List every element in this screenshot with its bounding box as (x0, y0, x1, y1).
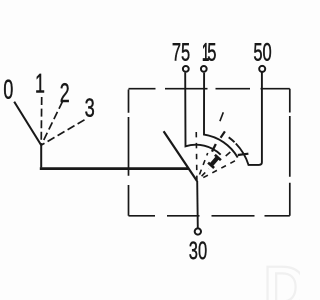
label position 1 (35, 69, 45, 99)
rotor radial 2 outer dash (226, 152, 231, 156)
svg-text:50: 50 (253, 39, 271, 67)
svg-text:5: 5 (207, 38, 216, 66)
terminal 75 circle (183, 66, 189, 72)
moving contact bar (bold I) (208, 155, 221, 168)
outer arc dashed segment (229, 137, 235, 142)
svg-text:0: 0 (3, 74, 13, 104)
switch housing dashed box: bottom edge (129, 215, 290, 217)
thick wire lever to switch (40, 167, 189, 170)
lever position 3 line (dashed) (41, 120, 84, 145)
rotor radial 1 outer dash (220, 112, 223, 121)
contact tick B between arcs (221, 131, 225, 137)
terminal label 30 (189, 237, 207, 265)
lever position 0 line (solid) (14, 102, 41, 146)
switch housing dashed box: top edge (129, 89, 290, 216)
svg-text:30: 30 (189, 237, 207, 265)
contact tick A on inner arc (212, 144, 216, 152)
lever position 1 line (dashed) (40, 97, 43, 145)
terminal 15 circle (201, 66, 207, 72)
terminal 15 lead + middle contact arc (204, 73, 238, 158)
label position 0 (3, 74, 13, 104)
switch housing dashed box: left edge (128, 90, 130, 216)
label position 3 (85, 93, 95, 123)
rotor position radial 0 (dashed vertical) (195, 128, 198, 181)
label position 2 (60, 78, 70, 108)
lever pivot drop wire (40, 145, 42, 168)
svg-text:75: 75 (172, 38, 190, 66)
terminal 75 lead + inner contact arc (185, 73, 221, 155)
rotor position radial 2 (dashed) (202, 169, 209, 176)
terminal 30 circle (195, 228, 201, 234)
svg-text:3: 3 (85, 93, 95, 123)
terminal label 75 (172, 38, 190, 66)
contact tick C on outer arc (238, 154, 249, 155)
rotor position radial 3 (dashed) (203, 161, 235, 178)
rotor position radial 1 (dashed) (200, 153, 208, 175)
svg-text:1: 1 (35, 69, 45, 99)
terminal 50 circle (259, 66, 265, 72)
terminal 30 lead (196, 181, 199, 228)
switch actuator shaft (solid diagonal) (164, 131, 197, 181)
lever position 2 line (dashed) (41, 102, 62, 146)
svg-text:D: D (264, 254, 301, 300)
switch housing dashed box: right edge (289, 89, 291, 216)
terminal label 50 (253, 39, 271, 67)
terminal 50 lead + elbow + outer contact arc (236, 73, 262, 165)
terminal label 15 (202, 38, 209, 66)
